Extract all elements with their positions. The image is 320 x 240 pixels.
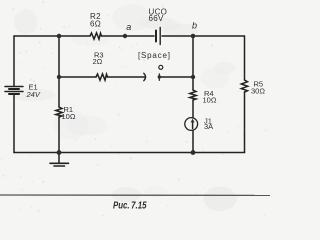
node a dot [123, 34, 127, 38]
svg-text:Рис. 7.15: Рис. 7.15 [113, 200, 147, 211]
wire R3 to switch [108, 76, 146, 78]
wire R4 to current source [192, 100, 194, 118]
wire middle left [59, 76, 96, 78]
label R3 value [93, 51, 104, 67]
label UC0 66V [149, 8, 168, 24]
node dot middle right [191, 75, 195, 79]
node b dot [191, 34, 196, 39]
wire current source to bottom [192, 131, 194, 153]
node dot bottom right branch [191, 150, 196, 155]
svg-text:2Ω: 2Ω [93, 57, 103, 66]
battery E1 24V [5, 87, 23, 95]
node dot bottom left branch [57, 150, 62, 155]
svg-text:66V: 66V [149, 14, 164, 23]
svg-text:30Ω: 30Ω [251, 86, 265, 95]
ground bar 1 [50, 162, 69, 164]
switch post dot [158, 75, 161, 78]
resistor R3 [96, 74, 108, 80]
wire node a to capacitor [102, 35, 155, 37]
label R4 value [203, 89, 217, 105]
label E1 value [26, 83, 41, 99]
switch blade tip circle [159, 65, 163, 69]
switch contact arc [144, 73, 146, 80]
capacitor UC0 66V plate left [155, 31, 157, 42]
caption separator rule [0, 194, 270, 196]
svg-text:a: a [126, 22, 131, 32]
current source J1 circle [185, 118, 198, 131]
wire third branch: b down to R4 [192, 36, 194, 90]
svg-text:b: b [192, 21, 197, 31]
label J1 value [204, 117, 213, 132]
wire switch to node junction [161, 76, 194, 78]
ground stub [58, 153, 60, 163]
current source J1 arrow [192, 121, 194, 129]
paper background [0, 0, 270, 219]
capacitor UC0 66V plate right [159, 28, 161, 45]
node dot top at R1 branch [57, 34, 62, 39]
wire bottom [14, 152, 245, 154]
wire second branch lower [58, 117, 60, 153]
wire right branch upper [244, 36, 246, 80]
resistor R4 [190, 90, 196, 100]
svg-text:[Space]: [Space] [138, 51, 171, 60]
svg-text:24V: 24V [26, 90, 41, 99]
label R5 value [251, 80, 265, 96]
wire left branch vertical [13, 36, 15, 86]
wire right branch lower [244, 92, 246, 153]
resistor R5 [241, 80, 247, 92]
label R1 value [62, 105, 76, 121]
svg-text:3A: 3A [204, 122, 213, 131]
wire battery to bottom-left corner [13, 94, 15, 153]
wire capacitor to node b to top-right corner [162, 35, 245, 37]
wire second branch upper [58, 36, 60, 107]
resistor R1 [56, 107, 62, 117]
node dot middle left [57, 75, 61, 79]
svg-text:10Ω: 10Ω [203, 96, 217, 105]
ground bar 2 [54, 165, 65, 167]
svg-text:10Ω: 10Ω [62, 112, 76, 121]
resistor R2 [90, 33, 102, 39]
label R2 value [90, 12, 101, 29]
wire top left: corner to R2 [14, 35, 90, 37]
svg-text:6Ω: 6Ω [90, 20, 101, 29]
switch terminal post [158, 74, 160, 81]
